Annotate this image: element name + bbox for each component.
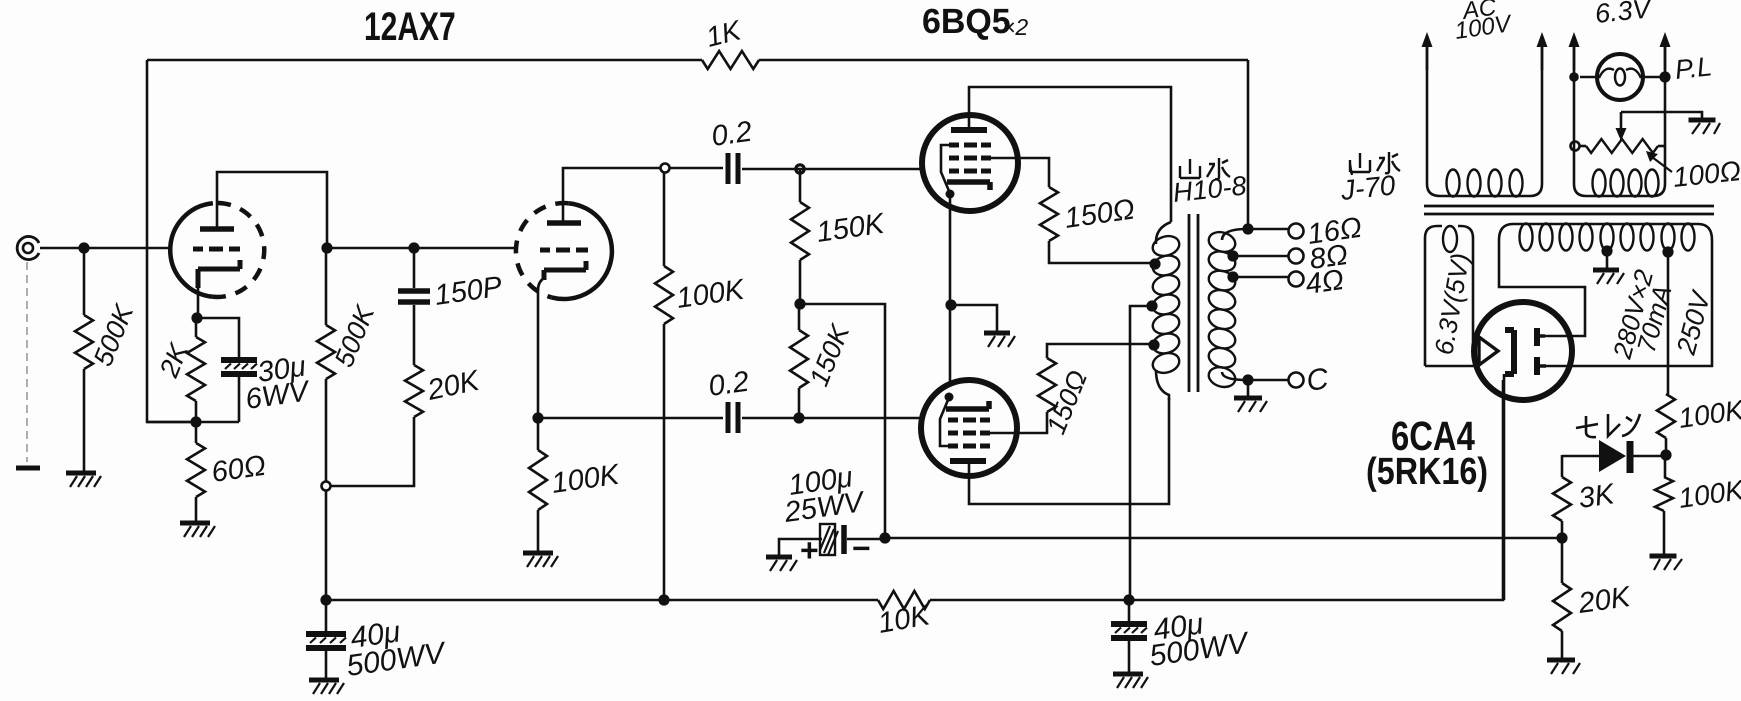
tick mark before kanji <box>1350 164 1352 175</box>
node: bias divider junction <box>1556 532 1567 543</box>
wire: feedback left drop to first cathode <box>147 60 196 422</box>
wire: bias line to divider <box>885 537 1562 540</box>
wire: lamp right lead <box>1642 76 1665 79</box>
wire: feedback takeoff 16ohm <box>1247 60 1250 229</box>
node: 4ohm tap <box>1227 271 1238 282</box>
wire: V2 screen lead <box>991 158 1049 187</box>
resistor R-FB 1K <box>702 51 759 69</box>
node: cathodes junction <box>945 299 956 310</box>
label 100u 25WV <box>782 461 868 529</box>
label selenium (katakana) <box>1576 414 1640 437</box>
transformer T2 HV winding 280Vx2 <box>1499 224 1712 251</box>
svg-text:+: + <box>800 532 819 568</box>
wire: HV left end to plate 1 <box>1499 240 1585 336</box>
tube V4 6CA4 rectifier <box>1474 302 1572 400</box>
capacitor 150P <box>398 248 430 365</box>
wire: V1a plate to V1b grid <box>327 247 517 250</box>
transformer T1 output H10-8 primary <box>1150 222 1181 400</box>
wire: 4ohm terminal lead <box>1233 276 1288 279</box>
resistor 100K lower <box>1655 455 1673 554</box>
terminal 16ohm <box>1289 224 1304 239</box>
wire: V2 plate to OPT top <box>969 87 1171 222</box>
wire: V1b cathode lead <box>538 278 544 418</box>
wire: 8ohm terminal lead <box>1233 255 1288 258</box>
wire: cathode to ground <box>951 305 997 331</box>
input shield dashed drop <box>26 262 28 462</box>
tube V1a 12AX7 first triode <box>170 203 264 297</box>
wire: V1a plate up and over <box>217 172 327 248</box>
wire: V1b plate up <box>563 168 660 223</box>
ground (HV center) <box>1593 270 1624 284</box>
transformer core lines <box>1424 206 1714 214</box>
node: V1a plate junction <box>321 242 332 253</box>
wire: V3 plate to OPT bottom <box>969 398 1169 504</box>
svg-text:3K: 3K <box>1577 478 1618 515</box>
label 40u 500WV second <box>1147 607 1252 673</box>
capacitor 0.2 upper coupling <box>728 153 738 184</box>
ground (V1b cathode) <box>523 553 558 567</box>
node: secondary common <box>1242 374 1253 385</box>
node: 150K junction <box>794 298 805 309</box>
tube V2 6BQ5 upper <box>922 115 1018 211</box>
node: input junction <box>78 242 89 253</box>
node: 8ohm tap <box>1227 250 1238 261</box>
node: filter node 2 <box>1123 594 1134 605</box>
resistor 20K bias <box>1553 538 1571 658</box>
ground (output cathodes) <box>984 333 1015 347</box>
tube V1b 12AX7 second triode <box>516 203 612 299</box>
node: V1b cathode junction <box>532 412 543 423</box>
node: lamp right <box>1659 71 1670 82</box>
wire: lower coupling row <box>538 417 920 420</box>
node: selenium node <box>1660 449 1671 460</box>
resistor 20K compensation <box>331 365 423 486</box>
svg-text:P.L: P.L <box>1673 51 1713 85</box>
node: HV 250V tap <box>1662 246 1673 257</box>
resistor 500K input grid leak <box>75 248 93 471</box>
wire: to coupling cap <box>670 167 723 170</box>
ground (hum pot) <box>1689 120 1721 134</box>
svg-text:×2: ×2 <box>1002 14 1028 40</box>
node: filter node 1 <box>320 594 331 605</box>
wire: feedback junction row <box>147 421 239 424</box>
ground (20K bias) <box>1547 660 1580 674</box>
node: primary tap screen V2 <box>1149 258 1160 269</box>
arrow 6.3V left <box>1573 38 1576 70</box>
resistor 150ohm V3 screen <box>1038 344 1152 412</box>
resistor 100K V1b plate load <box>655 172 673 600</box>
tube V3 6BQ5 lower <box>921 380 1017 476</box>
transformer core <box>1189 214 1198 392</box>
wire: 250V tap drop <box>1667 252 1670 394</box>
ground (40u first) <box>309 680 344 694</box>
label 100ohm with leader <box>1646 151 1741 193</box>
capacitor 30u 6WV cathode bypass <box>197 318 257 422</box>
node: HV center tap <box>1601 245 1612 256</box>
resistor 60ohm feedback leg <box>187 422 205 521</box>
resistor 2K cathode <box>187 318 205 422</box>
pot wiper arrow <box>1616 112 1627 141</box>
svg-text:0.2: 0.2 <box>707 366 751 403</box>
terminal lamp left <box>1569 72 1579 82</box>
node: open circle B+ dropping junction <box>322 482 331 491</box>
node: V1a cathode <box>191 312 202 323</box>
label 6BQ5 x2 <box>922 2 1028 41</box>
wire: negative feedback top rail <box>147 59 1248 62</box>
resistor 150K upper grid <box>791 169 809 304</box>
ground (secondary) <box>1234 398 1267 412</box>
wire: V2 cathode down <box>949 194 952 382</box>
capacitor 40u 500WV second filter <box>1111 600 1147 672</box>
svg-text:0.2: 0.2 <box>710 116 754 153</box>
node: upper grid node (ring) <box>796 165 804 173</box>
resistor 150ohm V2 screen <box>1040 187 1152 263</box>
wire: common to ground <box>1247 380 1250 396</box>
terminal C <box>1289 373 1304 388</box>
wire: 16ohm terminal lead <box>1248 228 1288 231</box>
resistor 500K plate load <box>317 248 335 481</box>
input shield open bar <box>16 466 40 471</box>
node: cathode bottom junction <box>190 416 201 427</box>
svg-text:12AX7: 12AX7 <box>364 5 456 49</box>
svg-text:−: − <box>852 530 871 566</box>
wire: 6CA4 cathode B+ out <box>1503 374 1506 600</box>
wire: lamp left lead <box>1580 76 1599 79</box>
wire: bias feed to junction <box>800 304 885 537</box>
resistor 100K V1b cathode <box>529 418 547 551</box>
svg-text:6BQ5: 6BQ5 <box>922 2 1011 41</box>
node: V1b load rail junction <box>658 594 669 605</box>
transformer T2 power J-70 primary AC <box>1427 44 1542 197</box>
capacitor 40u 500WV first filter <box>306 600 346 678</box>
wire: HV right end to plate 2 <box>1546 240 1712 366</box>
ground (input 500K) <box>66 473 101 487</box>
arrow AC right <box>1541 38 1544 70</box>
terminal 4ohm <box>1289 272 1304 287</box>
label 30u 6WV <box>244 351 313 416</box>
node: primary tap B+ center <box>1146 300 1157 311</box>
node: 16ohm tap <box>1242 223 1253 234</box>
svg-text:J-70: J-70 <box>1338 169 1397 206</box>
label AC 100V <box>1453 0 1514 45</box>
transformer T2 rectifier heater 6.3V(5V) winding <box>1425 226 1477 366</box>
wire: B+ bottom rail <box>326 380 1503 600</box>
wire: B+ center tap drop <box>1130 306 1152 600</box>
wire: common terminal lead <box>1248 379 1288 382</box>
diode selenium <box>1562 440 1662 473</box>
wire: input to grid <box>40 247 170 250</box>
resistor 10K dropper <box>878 591 930 609</box>
ground (100u) <box>766 557 797 571</box>
svg-text:4Ω: 4Ω <box>1304 264 1346 301</box>
resistor 3K <box>1553 455 1571 538</box>
capacitor 100u 25WV bias filter <box>779 524 885 555</box>
label OPT Sansui kanji <box>1180 158 1230 179</box>
svg-text:(5RK16): (5RK16) <box>1366 451 1488 493</box>
wire: V1a cathode lead <box>197 286 200 318</box>
label 40u 500WV first <box>344 615 449 683</box>
input jack <box>17 237 39 260</box>
wire: V3 screen lead <box>990 412 1047 433</box>
node: bias junction <box>879 532 890 543</box>
node: open circle plate node <box>661 164 670 173</box>
ground (40u second) <box>1113 674 1148 688</box>
capacitor 0.2 lower coupling <box>728 402 738 433</box>
wire: wiper to ground <box>1621 112 1702 118</box>
resistor 100K upper (from 250V tap) <box>1657 394 1675 455</box>
transformer T2 heater 6.3V winding <box>1574 44 1665 197</box>
arrow AC left <box>1426 38 1429 70</box>
label PT Sansui kanji <box>1350 152 1400 173</box>
transformer T1 secondary <box>1206 229 1247 390</box>
potentiometer 100ohm hum balance <box>1571 139 1666 153</box>
resistor 150K lower grid <box>790 304 808 418</box>
node: lower grid node <box>793 412 804 423</box>
ground (100K) <box>1650 556 1683 570</box>
node: 150P junction <box>408 242 419 253</box>
terminal 8ohm <box>1289 249 1304 264</box>
wire: center tap ground <box>1606 251 1609 268</box>
ground (60ohm) <box>180 523 215 537</box>
arrow 6.3V right <box>1664 38 1667 70</box>
pilot lamp P.L <box>1597 54 1643 100</box>
node: primary tap screen V3 <box>1148 339 1159 350</box>
